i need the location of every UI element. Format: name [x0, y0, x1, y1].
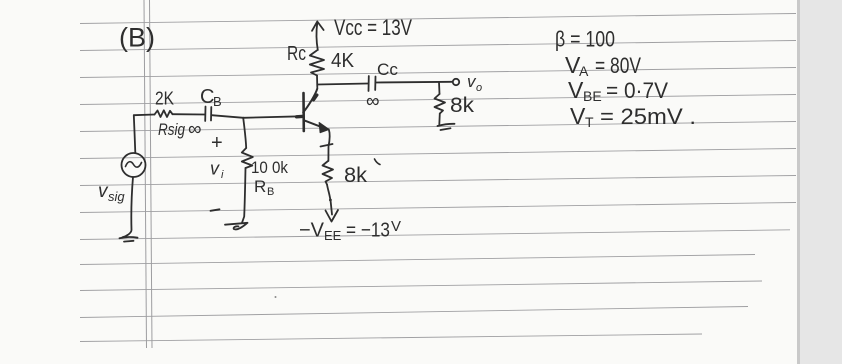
note VA = 80V [565, 52, 641, 79]
stray pen mark [375, 159, 381, 165]
wire CC to output terminal [376, 81, 452, 84]
resistor RE 8k emitter [323, 161, 334, 185]
node vo open terminal [453, 79, 459, 85]
wire vsig top corner to Rsig [134, 114, 155, 117]
ground at RL [438, 124, 455, 130]
svg-text:EE: EE [324, 228, 342, 243]
note VT = 25mV [570, 103, 696, 130]
resistor RL 8k load [435, 94, 446, 114]
svg-text:sig: sig [108, 189, 125, 204]
svg-text:2K: 2K [155, 89, 174, 109]
wire emitter down to RE [328, 129, 329, 161]
ground at RB [225, 223, 248, 230]
svg-text:∞: ∞ [188, 119, 202, 140]
svg-text:T: T [585, 114, 594, 130]
label vo [467, 72, 482, 94]
label vi [210, 159, 224, 182]
svg-text:−V: −V [299, 220, 325, 242]
wire output node down to RL [438, 82, 441, 94]
resistor RC [310, 51, 324, 76]
svg-text:10 0k: 10 0k [251, 158, 288, 177]
note VBE = 0.7V [568, 77, 668, 104]
tick mark on emitter wire [321, 144, 333, 147]
svg-text:o: o [476, 82, 482, 94]
svg-text:+: + [211, 132, 223, 154]
wire base junction to Q1 base [243, 116, 301, 118]
svg-text:v: v [210, 159, 220, 179]
capacitor CB [205, 107, 211, 122]
transistor Q1 base bar [302, 93, 305, 131]
svg-text:R: R [254, 177, 266, 196]
capacitor CC [369, 76, 376, 91]
svg-text:BE: BE [583, 88, 602, 104]
svg-text:= −13: = −13 [346, 220, 390, 242]
svg-text:Vcc = 13V: Vcc = 13V [334, 15, 412, 40]
wire RL to ground [438, 114, 441, 125]
svg-text:Rsig: Rsig [158, 120, 185, 139]
wire RC bottom to collector node [316, 76, 318, 88]
resistor RB 100k [242, 148, 253, 168]
svg-text:(B): (B) [119, 23, 155, 53]
svg-text:V: V [568, 77, 584, 103]
transistor Q1 collector lead [303, 89, 317, 113]
label vsig [98, 181, 125, 204]
svg-text:V: V [391, 218, 401, 235]
svg-text:β = 100: β = 100 [555, 27, 615, 52]
wire RE down to VEE [327, 185, 330, 200]
wire RB to ground [242, 168, 246, 223]
svg-text:B: B [213, 94, 222, 109]
polarity minus of vi [211, 209, 220, 211]
svg-text:4K: 4K [331, 50, 355, 72]
power VCC arrow [312, 22, 324, 51]
faint ink dot [275, 296, 277, 298]
resistor Rsig 2K [155, 110, 173, 117]
wire Rsig to CB [173, 113, 205, 115]
svg-text:Rc: Rc [287, 43, 306, 65]
svg-text:∞: ∞ [366, 91, 380, 112]
power -VEE arrow [326, 200, 339, 222]
label -VEE = -13V [299, 218, 401, 243]
svg-text:Cc: Cc [377, 60, 399, 79]
wire corner down to vsig source [134, 115, 136, 153]
source vsig sine generator [122, 153, 146, 177]
svg-text:= 80V: = 80V [595, 53, 641, 78]
svg-text:8k: 8k [450, 94, 475, 117]
svg-text:8k: 8k [344, 164, 368, 187]
transistor Q1 emitter lead with arrow [304, 120, 324, 128]
label RB [254, 177, 274, 198]
svg-text:B: B [267, 186, 274, 198]
label CB [200, 86, 222, 109]
wire collector node to CC [317, 84, 368, 85]
wire base junction down to RB [243, 118, 246, 148]
svg-text:= 0·7V: = 0·7V [606, 78, 668, 103]
svg-text:= 25mV .: = 25mV . [600, 104, 696, 129]
wire CB to base junction [212, 115, 244, 118]
ground at vsig [120, 237, 138, 242]
svg-text:V: V [570, 103, 586, 129]
wire vsig to ground [123, 177, 134, 237]
